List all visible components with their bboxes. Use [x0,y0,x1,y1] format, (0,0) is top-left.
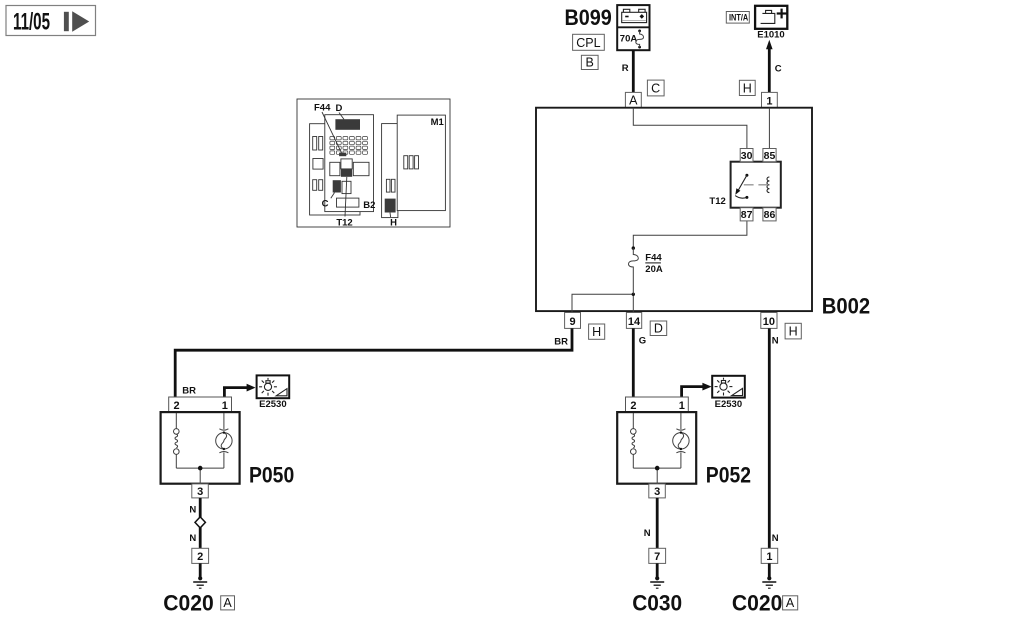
svg-text:M1: M1 [431,117,445,128]
svg-text:1: 1 [766,95,772,107]
svg-text:11/05: 11/05 [13,9,50,35]
svg-text:10: 10 [763,316,775,328]
svg-text:R: R [622,63,629,74]
svg-text:N: N [189,505,196,516]
svg-text:C020: C020 [163,590,213,616]
svg-text:C: C [651,82,660,96]
svg-text:A: A [629,93,638,107]
svg-text:H: H [390,218,397,229]
svg-text:2: 2 [630,400,636,412]
svg-text:BR: BR [554,336,568,347]
svg-text:A: A [223,596,232,610]
svg-text:E2530: E2530 [715,399,742,410]
svg-text:B002: B002 [822,294,870,319]
svg-text:P052: P052 [706,463,751,487]
svg-text:C: C [322,199,329,210]
svg-text:2: 2 [173,400,179,412]
svg-text:T12: T12 [336,218,352,229]
svg-text:1: 1 [222,400,228,412]
svg-text:N: N [772,335,779,346]
svg-text:9: 9 [569,316,575,328]
svg-text:1: 1 [766,551,772,563]
svg-text:E2530: E2530 [259,399,286,410]
svg-text:C020: C020 [732,590,782,616]
svg-text:1: 1 [679,400,685,412]
svg-text:B2: B2 [363,200,375,211]
svg-text:87: 87 [741,209,753,221]
svg-text:A: A [786,596,795,610]
svg-text:N: N [644,528,651,539]
svg-text:D: D [654,322,663,336]
svg-text:85: 85 [764,150,776,162]
svg-text:CPL: CPL [576,36,600,50]
svg-text:G: G [639,336,646,347]
svg-text:H: H [789,325,798,339]
svg-text:3: 3 [654,486,660,498]
svg-text:14: 14 [628,316,641,328]
svg-text:3: 3 [197,486,203,498]
svg-text:F44: F44 [645,253,662,264]
svg-text:D: D [336,103,343,114]
svg-text:86: 86 [764,209,776,221]
svg-text:70A: 70A [620,34,638,45]
svg-text:C: C [775,64,782,75]
svg-text:N: N [189,533,196,544]
svg-text:B: B [586,55,594,69]
svg-text:N: N [772,533,779,544]
svg-text:E1010: E1010 [757,29,784,40]
svg-text:7: 7 [654,551,660,563]
svg-text:T12: T12 [709,196,725,207]
svg-text:H: H [743,82,752,96]
svg-text:F44: F44 [314,103,331,114]
svg-text:H: H [592,325,601,339]
svg-text:C030: C030 [632,591,682,616]
svg-text:BR: BR [182,386,196,397]
svg-text:2: 2 [197,551,203,563]
svg-text:INT/A: INT/A [729,13,748,23]
svg-text:B099: B099 [565,6,612,30]
svg-text:30: 30 [741,150,753,162]
svg-text:20A: 20A [645,264,663,275]
svg-text:P050: P050 [249,463,294,487]
